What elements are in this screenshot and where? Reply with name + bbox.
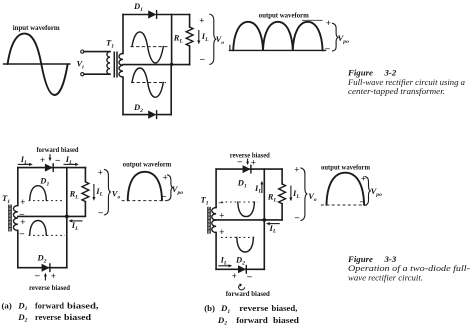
diode D1 (a) xyxy=(45,164,53,172)
svg-text:–: – xyxy=(237,156,243,166)
wire middle vertical (b) xyxy=(263,169,265,269)
svg-text:output waveform: output waveform xyxy=(259,11,309,19)
upper winding hump axis dots (b) xyxy=(221,201,257,203)
lower winding hump axis dots (b) xyxy=(221,236,257,238)
svg-text:Figure3-2: Figure3-2 xyxy=(347,67,397,77)
wire left vertical upper (b) xyxy=(215,169,217,207)
svg-text:+: + xyxy=(219,227,224,237)
annotation arrow down to D1 (a) xyxy=(49,154,51,158)
svg-text:–: – xyxy=(161,191,167,201)
wire bottom rail right of D2 xyxy=(157,114,172,116)
svg-text:+: + xyxy=(20,217,25,227)
wire middle vertical (a) xyxy=(66,168,68,268)
current arrow IL xyxy=(198,30,200,41)
diode D2 xyxy=(148,111,156,119)
diode D2 (a) xyxy=(42,264,50,272)
brace Vpo (b) xyxy=(365,176,371,205)
svg-text:+: + xyxy=(219,210,224,220)
wire top rail left of D1 xyxy=(123,14,149,16)
output waveform baseline dashed (b) xyxy=(321,204,368,206)
svg-text:+: + xyxy=(232,271,237,281)
svg-text:–: – xyxy=(294,212,300,222)
current arrow IL up left of RL (b) xyxy=(261,184,263,193)
wire primary bottom xyxy=(84,73,110,75)
svg-text:+: + xyxy=(20,197,25,207)
wire RL bottom lead (a) xyxy=(84,202,86,217)
node junction (b) xyxy=(262,218,266,222)
output waveform baseline dashed (a) xyxy=(122,200,168,202)
terminal (primary top) xyxy=(81,50,84,53)
current arrow IL top-left (a) xyxy=(18,163,30,165)
svg-text:–: – xyxy=(55,154,61,164)
diode D1 xyxy=(148,10,156,18)
arrow up below D2 (a) xyxy=(44,276,46,281)
svg-text:+: + xyxy=(361,174,366,184)
transformer core (b) xyxy=(208,207,210,234)
wire center-tap rail (b) xyxy=(216,219,282,221)
svg-text:output waveform: output waveform xyxy=(321,164,370,172)
brace Vpo xyxy=(332,23,339,51)
wire center-tap rail xyxy=(123,64,190,66)
baseline left tick xyxy=(229,45,231,51)
svg-text:output waveform: output waveform xyxy=(123,160,172,168)
svg-text:–: – xyxy=(246,271,252,281)
wire lower-loop right vertical xyxy=(170,64,172,114)
current arrow IL top-right (a) xyxy=(64,163,76,165)
upper winding hump symbol inverted (b) xyxy=(238,202,255,217)
svg-text:+: + xyxy=(163,173,168,183)
wire primary top xyxy=(84,51,110,53)
svg-text:+: + xyxy=(326,18,331,28)
annotation arrow down to D1 (b) xyxy=(247,159,249,162)
wire RL top lead (a) xyxy=(84,168,86,182)
current arrow IL return (a) xyxy=(72,220,83,222)
svg-text:–: – xyxy=(199,53,205,63)
terminal (primary bottom) xyxy=(81,73,84,76)
output waveform humps xyxy=(233,22,322,51)
svg-text:+: + xyxy=(294,165,299,175)
current arrow IL beside RL (b) xyxy=(290,186,292,199)
current arrow IL beside RL (a) xyxy=(93,184,95,198)
wire center-tap rail (a) xyxy=(18,215,85,217)
svg-text:–: – xyxy=(218,197,224,207)
input waveform axis xyxy=(3,63,70,65)
svg-text:center-tapped transformer.: center-tapped transformer. xyxy=(348,86,445,96)
wire bottom rail left of D2 xyxy=(123,114,149,116)
wire left vertical lower (b) xyxy=(215,233,217,270)
wire left vertical lower (a) xyxy=(17,231,19,268)
node junction (a) xyxy=(65,215,69,219)
wire top rail right of D1 xyxy=(157,14,190,16)
upper loop sine axis (dashed) xyxy=(131,46,169,48)
upper loop sine symbol xyxy=(132,32,163,63)
wire RL bottom lead (b) xyxy=(281,204,283,220)
lower loop sine symbol xyxy=(132,68,163,97)
diode D1 (b) xyxy=(243,165,251,173)
lower winding hump axis dots (a) xyxy=(29,234,65,236)
node junction (center tap rail) xyxy=(170,63,173,66)
output waveform hump (b) xyxy=(327,173,365,205)
resistor RL (b) xyxy=(279,184,286,204)
upper winding hump axis dots (a) xyxy=(29,200,64,202)
wire top rail (b) xyxy=(216,168,282,170)
transformer secondary winding (a) xyxy=(13,206,17,231)
transformer secondary winding (b) xyxy=(212,208,216,233)
svg-text:–: – xyxy=(97,207,103,217)
upper winding hump symbol (a) xyxy=(30,186,47,201)
diode D2 (b) xyxy=(238,265,246,273)
leader line to output peak xyxy=(302,19,323,21)
transformer T1 primary winding xyxy=(107,52,110,75)
resistor RL (a) xyxy=(82,182,89,202)
svg-text:–: – xyxy=(34,270,40,280)
svg-text:+: + xyxy=(199,16,204,26)
resistor RL xyxy=(186,27,193,46)
output waveform hump (a) xyxy=(128,172,162,201)
svg-text:input waveform: input waveform xyxy=(13,24,60,32)
svg-text:+: + xyxy=(51,271,56,281)
wire bottom rail (a) xyxy=(18,267,67,269)
wire RL bottom lead xyxy=(189,46,191,65)
svg-text:forward biased: forward biased xyxy=(37,146,79,154)
wire RL top lead xyxy=(189,15,191,28)
lower winding hump symbol inverted (b) xyxy=(237,237,254,252)
wire upper-loop right vertical xyxy=(171,15,173,65)
wire secondary top to top rail xyxy=(122,15,124,54)
svg-text:reverse biased: reverse biased xyxy=(29,284,70,292)
transformer T1 secondary winding xyxy=(119,54,123,78)
svg-text:forward biased: forward biased xyxy=(226,290,270,298)
lower loop sine axis (dashed) xyxy=(131,82,166,84)
brace Vo (a) xyxy=(104,169,111,215)
svg-text:+: + xyxy=(40,155,45,165)
svg-text:–: – xyxy=(324,43,330,53)
transformer T1 core xyxy=(114,52,117,78)
current arrow IL return (b) xyxy=(270,223,280,225)
output waveform baseline xyxy=(229,49,325,51)
svg-text:wave rectifier circuit.: wave rectifier circuit. xyxy=(348,272,423,282)
lower winding hump symbol (a) xyxy=(30,221,47,236)
wire RL top lead (b) xyxy=(281,169,283,184)
wire bottom rail (b) xyxy=(216,268,264,270)
wire top rail (a) xyxy=(18,167,86,169)
svg-text:+: + xyxy=(98,167,103,177)
brace Vpo (a) xyxy=(167,175,173,201)
brace Vo (b) xyxy=(300,168,307,221)
brace Vo xyxy=(209,14,216,65)
transformer core (a) xyxy=(9,205,11,232)
svg-text:–: – xyxy=(359,196,365,206)
wire left vertical upper (a) xyxy=(17,168,19,206)
current arrow IL bottom (b) xyxy=(218,265,229,267)
input waveform sine xyxy=(8,34,68,95)
curved arrow below D2 (b) xyxy=(239,285,245,290)
wire secondary bottom to lower loop xyxy=(122,77,124,115)
svg-text:–: – xyxy=(19,228,25,238)
